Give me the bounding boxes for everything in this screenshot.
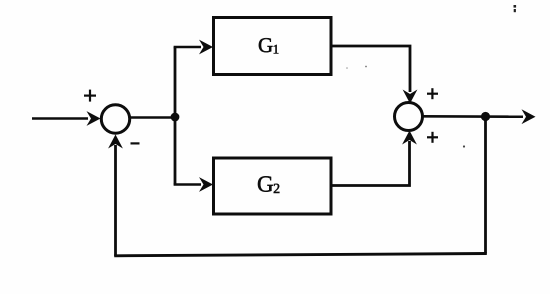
wire feedback up to summer <box>114 145 117 256</box>
speck dot above G1 output wire <box>365 66 367 68</box>
wire G1 output <box>331 46 410 92</box>
wire feedback bottom <box>114 254 487 256</box>
speck mark top right <box>514 5 517 8</box>
wire input R(s) <box>32 117 88 120</box>
plus sign at right summer bottom <box>427 136 438 138</box>
wire to G1 input <box>174 46 201 49</box>
wire branch up <box>174 47 177 117</box>
wire feedback down <box>484 117 487 254</box>
speck dot right of summer <box>463 145 465 147</box>
minus sign at left summer feedback <box>131 142 140 144</box>
plus sign at right summer top <box>427 93 438 95</box>
wire summer to branch node <box>130 116 175 119</box>
block G2 <box>214 158 332 214</box>
block G1 <box>214 18 332 75</box>
node output pick-off <box>481 112 490 121</box>
node branch point <box>171 113 180 122</box>
wire to G2 input <box>174 183 201 186</box>
wire output C(s) <box>422 115 523 118</box>
wire branch down <box>174 117 177 185</box>
wire G2 output <box>331 141 410 186</box>
summing junction S1 <box>101 105 129 133</box>
summing junction S2 <box>395 103 423 131</box>
plus sign at left summer input <box>84 94 96 96</box>
